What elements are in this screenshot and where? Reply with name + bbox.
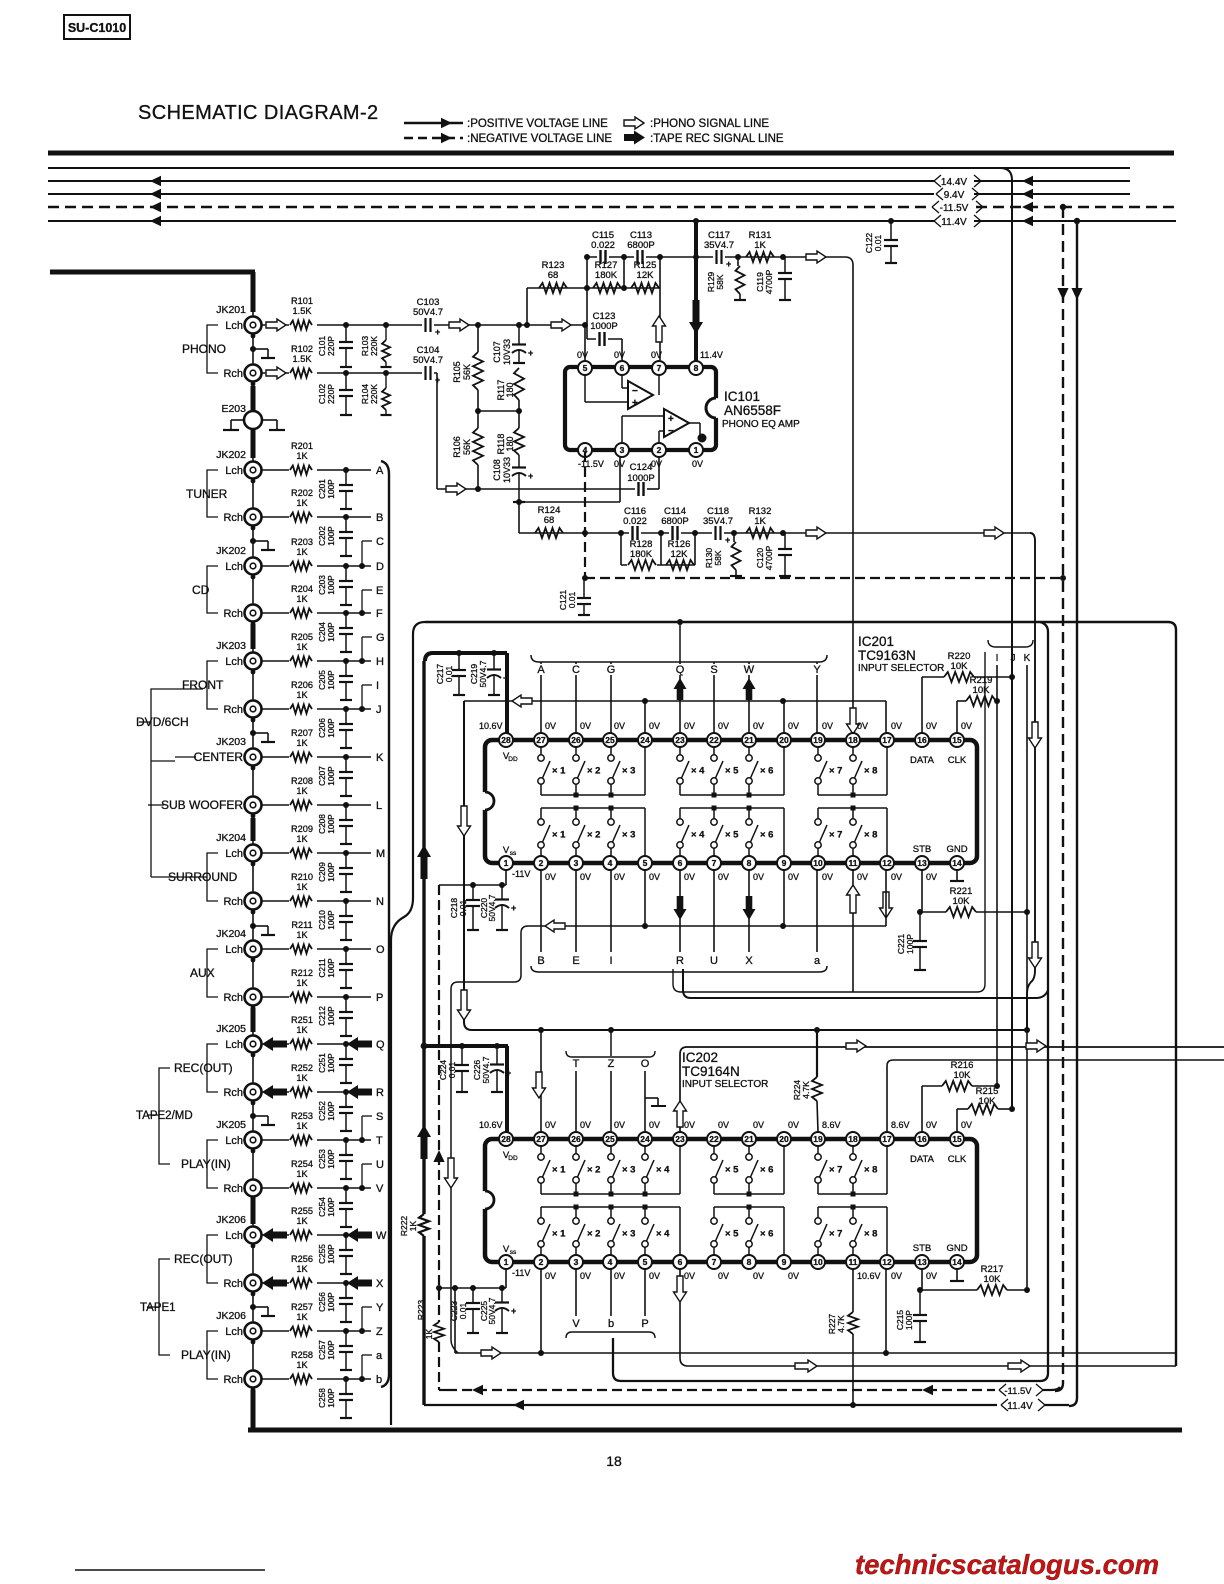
junction dot bridge on D line xyxy=(359,563,365,569)
svg-text:R211: R211 xyxy=(291,920,312,930)
capacitor C226 50V4.7 xyxy=(472,1046,511,1092)
arrow tape rec into jack y1235 xyxy=(262,1228,287,1242)
wire phono Lch out to pin18 xyxy=(826,257,853,733)
svg-text:18: 18 xyxy=(848,735,858,745)
svg-text:0V: 0V xyxy=(545,1271,556,1281)
svg-text:12: 12 xyxy=(882,1257,892,1267)
resistor R222 1K xyxy=(399,1214,429,1236)
svg-text:0V: 0V xyxy=(684,872,695,882)
svg-text:E: E xyxy=(376,585,383,597)
wire y1047 output row xyxy=(680,1047,1224,1054)
wire row R251 y1044 xyxy=(261,1043,371,1045)
resistor R252 1K xyxy=(289,1063,317,1099)
svg-text:0V: 0V xyxy=(788,872,799,882)
resistor R129 58K xyxy=(706,254,746,300)
pin 26 IC201 xyxy=(569,733,583,747)
ground chassis stub y733 xyxy=(250,730,275,742)
svg-text:TAPE2/MD: TAPE2/MD xyxy=(136,1110,193,1122)
pin 1 IC201 xyxy=(499,856,513,870)
wire vertical drop x1012 xyxy=(1000,168,1012,1109)
switch group row2-3 IC202 xyxy=(815,1205,887,1256)
svg-text:4700P: 4700P xyxy=(764,545,774,570)
svg-text:× 3: × 3 xyxy=(622,1229,635,1240)
svg-text:100P: 100P xyxy=(326,1292,336,1312)
pin 27 IC202 xyxy=(534,1132,548,1146)
svg-text:23: 23 xyxy=(675,735,685,745)
resistor R251 1K xyxy=(289,1015,317,1051)
svg-text:C108: C108 xyxy=(492,459,502,481)
svg-text:ss: ss xyxy=(510,1249,517,1256)
svg-text:0.01: 0.01 xyxy=(458,899,468,916)
svg-text:0V: 0V xyxy=(649,1271,660,1281)
wire row R212 y997 xyxy=(261,996,371,998)
svg-text:0V: 0V xyxy=(580,872,591,882)
svg-text:+: + xyxy=(725,535,730,545)
arrow down phono Rch route a xyxy=(1029,722,1042,748)
svg-text:18: 18 xyxy=(848,1134,858,1144)
wire row R102 y373 xyxy=(261,372,416,374)
resistor R206 1K xyxy=(289,680,317,716)
wire net I from pin xyxy=(610,870,612,952)
svg-text:1K: 1K xyxy=(296,738,308,748)
node letters bracket xyxy=(381,461,389,1387)
svg-text:R210: R210 xyxy=(291,872,313,882)
resistor R205 1K xyxy=(289,632,317,668)
wire jack column vertical xyxy=(252,310,254,1430)
svg-text:Y: Y xyxy=(813,664,821,676)
switch group row2-1 IC201 xyxy=(538,806,645,857)
svg-text:JK202: JK202 xyxy=(216,449,246,461)
svg-text:100P: 100P xyxy=(326,1388,336,1408)
svg-text:0V: 0V xyxy=(649,721,660,731)
svg-text:3: 3 xyxy=(574,858,579,868)
pin 5 IC201 xyxy=(638,856,652,870)
capacitor C206 100P xyxy=(317,706,353,748)
wire row R258 y1379 xyxy=(261,1378,371,1380)
resistor R126 12K xyxy=(666,539,694,570)
svg-text:0V: 0V xyxy=(961,1120,972,1130)
node bottom 11.4V label xyxy=(1001,1399,1045,1412)
svg-text:S: S xyxy=(376,1111,383,1123)
resistor R101 1.5K xyxy=(289,296,317,332)
capacitor C102 220P xyxy=(317,370,353,415)
node bottom letters bracket IC201 xyxy=(531,966,827,972)
svg-text:100P: 100P xyxy=(326,814,336,834)
ground chassis stub y1307 xyxy=(250,1304,275,1316)
svg-text:GND: GND xyxy=(946,844,967,855)
op-amp IC101 AN6558F body xyxy=(565,367,726,450)
svg-text:1000P: 1000P xyxy=(627,473,654,484)
svg-text:1K: 1K xyxy=(296,930,308,940)
capacitor C223 0.01 xyxy=(449,1285,480,1333)
svg-text:4.7K: 4.7K xyxy=(801,1081,811,1099)
resistor R217 10K xyxy=(977,1264,1007,1295)
svg-text:× 2: × 2 xyxy=(587,1229,600,1240)
pin 20 IC201 xyxy=(777,733,791,747)
svg-text:Q: Q xyxy=(676,664,685,676)
svg-text:R: R xyxy=(676,955,684,967)
wire Vss line IC201 xyxy=(439,870,506,885)
wire box outline right IC201 xyxy=(673,652,985,992)
svg-text:0V: 0V xyxy=(545,721,556,731)
svg-text:1K: 1K xyxy=(296,1121,308,1131)
arrow down pin12 xyxy=(880,892,893,918)
capacitor C122 0.01 xyxy=(864,218,898,263)
svg-text:AN6558F: AN6558F xyxy=(724,403,781,418)
svg-text:22: 22 xyxy=(709,735,719,745)
wire row R201 y470 xyxy=(261,469,371,471)
node AUX group xyxy=(190,949,218,997)
svg-text:8.6V: 8.6V xyxy=(891,1120,910,1130)
wire row R208 y805 xyxy=(261,804,371,806)
svg-text:× 5: × 5 xyxy=(725,1165,739,1176)
svg-text:TUNER: TUNER xyxy=(186,487,228,501)
capacitor C256 100P xyxy=(317,1280,353,1322)
svg-text:× 6: × 6 xyxy=(760,766,773,777)
jack Rch y373 xyxy=(223,365,261,387)
jack JK202 Lch y566 xyxy=(216,545,261,579)
svg-text:100P: 100P xyxy=(326,670,336,690)
svg-text:0.01: 0.01 xyxy=(447,1061,457,1078)
pin 13 IC201 xyxy=(915,856,929,870)
resistor R210 1K xyxy=(289,872,317,908)
node TAPE1 PLAY(IN) group xyxy=(181,1331,231,1379)
svg-text:Z: Z xyxy=(376,1326,383,1338)
jack Rch y1188 xyxy=(223,1180,261,1202)
pin 4 IC202 xyxy=(603,1255,617,1269)
node TAPE1 REC(OUT) group xyxy=(174,1235,233,1283)
svg-text:0V: 0V xyxy=(614,872,625,882)
capacitor C207 100P xyxy=(317,754,353,796)
svg-text:JK206: JK206 xyxy=(216,1310,246,1322)
svg-text:× 2: × 2 xyxy=(587,766,600,777)
switch group row2-1 IC202 xyxy=(538,1205,680,1256)
svg-text:CLK: CLK xyxy=(948,755,967,766)
svg-text:+: + xyxy=(528,348,533,358)
resistor R215 10K xyxy=(957,1086,1015,1132)
svg-text:0V: 0V xyxy=(651,350,662,360)
svg-text:× 7: × 7 xyxy=(829,830,842,841)
svg-text:+: + xyxy=(506,1068,511,1078)
svg-text:R208: R208 xyxy=(291,776,313,786)
svg-text:220P: 220P xyxy=(326,384,336,404)
svg-text:0.01: 0.01 xyxy=(567,591,577,608)
svg-text:× 4: × 4 xyxy=(656,1229,670,1240)
node TAPE2 REC(OUT) group xyxy=(174,1044,233,1092)
svg-text:1000P: 1000P xyxy=(590,321,617,332)
svg-text:9: 9 xyxy=(782,1257,787,1267)
jack JK204 Lch y949 xyxy=(216,928,261,962)
svg-text:INPUT SELECTOR: INPUT SELECTOR xyxy=(682,1079,768,1090)
svg-text:0V: 0V xyxy=(580,1271,591,1281)
svg-text:50V4.7: 50V4.7 xyxy=(487,1297,497,1324)
svg-text:1K: 1K xyxy=(754,516,766,527)
junction dot bridge on b line xyxy=(359,1376,365,1382)
svg-text:0V: 0V xyxy=(857,721,868,731)
wire pin6 out y1366 xyxy=(680,1312,1176,1366)
svg-text:100P: 100P xyxy=(326,526,336,546)
arrow left y926 xyxy=(545,920,565,932)
svg-text:I: I xyxy=(996,653,999,664)
svg-text:H: H xyxy=(376,656,384,668)
svg-text:100P: 100P xyxy=(326,622,336,642)
pin 7 IC202 xyxy=(707,1255,721,1269)
wire pin3 feedback y502 xyxy=(519,452,620,502)
capacitor C253 100P xyxy=(317,1137,353,1179)
svg-text:17: 17 xyxy=(882,735,892,745)
svg-text:4: 4 xyxy=(608,1257,613,1267)
svg-text:R209: R209 xyxy=(291,824,313,834)
pin 12 IC202 xyxy=(880,1255,894,1269)
svg-text:U: U xyxy=(376,1159,384,1171)
svg-text:20: 20 xyxy=(779,735,789,745)
svg-text:10.6V: 10.6V xyxy=(479,1120,503,1130)
jack Rch y613 xyxy=(223,605,261,627)
resistor R103 220K xyxy=(360,322,392,367)
svg-text:220P: 220P xyxy=(326,336,336,356)
svg-text:R256: R256 xyxy=(291,1254,313,1264)
model label SU-C1010 xyxy=(64,15,130,39)
resistor R130 58K xyxy=(704,530,742,576)
pin 7 IC101 xyxy=(652,361,666,375)
wire rail4 y565 xyxy=(621,533,695,565)
node nets I J K bracket xyxy=(988,640,1033,664)
arrow right y1366 a xyxy=(795,1360,817,1372)
arrow tape rec at letter X xyxy=(347,1276,372,1290)
pin 6 IC201 xyxy=(673,856,687,870)
wire bus 14.4V xyxy=(48,176,1130,187)
svg-text:C: C xyxy=(376,536,384,548)
svg-text:10K: 10K xyxy=(973,685,991,696)
capacitor C107 10V33 xyxy=(492,325,533,365)
pin 13 IC202 xyxy=(915,1255,929,1269)
svg-text:12K: 12K xyxy=(637,270,655,281)
pin 21 IC202 xyxy=(742,1132,756,1146)
svg-text:Rch: Rch xyxy=(223,1183,243,1195)
resistor R223 1K xyxy=(416,1300,444,1342)
svg-text:6800P: 6800P xyxy=(661,516,688,527)
svg-text:1.5K: 1.5K xyxy=(293,354,313,364)
svg-text:10K: 10K xyxy=(984,1274,1002,1285)
capacitor C113 6800P xyxy=(627,230,654,265)
switch group row1-3 IC201 xyxy=(815,747,887,798)
svg-text:× 7: × 7 xyxy=(829,1229,842,1240)
switch group row2-3 IC201 xyxy=(815,806,887,857)
junction dot bridge on F line xyxy=(359,610,365,616)
svg-text:1.5K: 1.5K xyxy=(293,306,313,316)
svg-text:1K: 1K xyxy=(296,690,308,700)
svg-text:−: − xyxy=(632,386,638,397)
svg-text:-11.5V: -11.5V xyxy=(578,459,604,469)
wire row R211 y949 xyxy=(261,948,371,950)
arrow left y701 xyxy=(512,695,532,707)
svg-text:100P: 100P xyxy=(326,575,336,595)
svg-text:0V: 0V xyxy=(614,459,625,469)
switch group row2-2 IC202 xyxy=(711,1205,784,1256)
svg-text:1K: 1K xyxy=(296,1169,308,1179)
wire thick supply x424 xyxy=(417,661,431,1405)
arrow tape rec at letter Q xyxy=(347,1037,372,1051)
svg-text:6: 6 xyxy=(620,363,625,373)
svg-text:5: 5 xyxy=(643,858,648,868)
svg-text:R105: R105 xyxy=(452,361,462,383)
wire row R210 y901 xyxy=(261,900,371,902)
resistor R219 10K xyxy=(957,675,1000,733)
svg-text:0V: 0V xyxy=(822,872,833,882)
svg-text:21: 21 xyxy=(744,735,754,745)
wire net R from pin6 xyxy=(674,870,687,952)
node DVD/6CH outer bracket xyxy=(136,689,203,877)
wire net C to pin xyxy=(575,662,577,733)
svg-text:0V: 0V xyxy=(614,350,625,360)
svg-text:G: G xyxy=(607,664,616,676)
wire bottom 11.4V return xyxy=(424,1400,1069,1411)
svg-text:K: K xyxy=(1024,653,1031,664)
svg-text:JK205: JK205 xyxy=(216,1119,246,1131)
svg-text:JK202: JK202 xyxy=(216,545,246,557)
wire net S to pin xyxy=(713,662,715,733)
svg-text:× 1: × 1 xyxy=(552,1165,566,1176)
svg-text:SCHEMATIC DIAGRAM-2: SCHEMATIC DIAGRAM-2 xyxy=(138,102,379,124)
svg-text:A: A xyxy=(376,465,384,477)
svg-text:3: 3 xyxy=(574,1257,579,1267)
svg-text:DD: DD xyxy=(508,756,518,763)
svg-text:1K: 1K xyxy=(296,1073,308,1083)
svg-text:21: 21 xyxy=(744,1134,754,1144)
wire bus -11.5V dashed xyxy=(48,202,1176,213)
svg-text:b: b xyxy=(376,1374,382,1386)
svg-text:IC202: IC202 xyxy=(682,1050,718,1065)
svg-text:0.022: 0.022 xyxy=(623,516,647,527)
svg-text:27: 27 xyxy=(536,735,546,745)
jack Rch y517 xyxy=(223,509,261,531)
svg-text:Rch: Rch xyxy=(223,1278,243,1290)
capacitor C103 50V4.7 xyxy=(413,297,443,337)
svg-text:Rch: Rch xyxy=(223,1087,243,1099)
node net Y (bridge) xyxy=(362,1302,384,1331)
wire net T to pin xyxy=(575,1071,577,1132)
svg-text::NEGATIVE VOLTAGE LINE: :NEGATIVE VOLTAGE LINE xyxy=(467,133,612,145)
node IC201 top pin voltages xyxy=(479,721,972,731)
wire net I vertical xyxy=(996,665,998,1086)
wire route y622 xyxy=(425,622,1176,1366)
svg-text:O: O xyxy=(641,1058,650,1070)
svg-text:10: 10 xyxy=(813,858,823,868)
svg-text:10.6V: 10.6V xyxy=(479,721,503,731)
svg-text:× 7: × 7 xyxy=(829,1165,842,1176)
svg-text:0V: 0V xyxy=(614,1271,625,1281)
svg-text:Rch: Rch xyxy=(223,1374,243,1386)
svg-text:14: 14 xyxy=(952,1257,962,1267)
pin 28 IC201 xyxy=(499,733,513,747)
node IC201 Vdd Vss xyxy=(503,751,968,857)
capacitor C252 100P xyxy=(317,1089,353,1131)
wire net V from pin xyxy=(575,1269,577,1316)
node TUNER group xyxy=(186,470,228,517)
svg-text:R101: R101 xyxy=(291,296,313,306)
svg-text:1K: 1K xyxy=(296,978,308,988)
wire row R204 y613 xyxy=(261,612,371,614)
svg-text:TC9164N: TC9164N xyxy=(682,1064,740,1079)
resistor R128 180K xyxy=(627,539,657,572)
svg-text:0V: 0V xyxy=(926,721,937,731)
resistor R208 1K xyxy=(289,776,317,812)
switch group row2-2 IC201 xyxy=(677,806,784,857)
resistor R253 1K xyxy=(289,1111,317,1147)
svg-text:1K: 1K xyxy=(408,1220,418,1231)
svg-text:V: V xyxy=(572,1318,580,1330)
svg-text:50V4.7: 50V4.7 xyxy=(478,660,488,687)
wire net a from pin xyxy=(816,870,818,952)
node IC202 bottom pin voltages xyxy=(512,1268,937,1281)
junction dot bridge on Z line xyxy=(359,1328,365,1334)
svg-text:S: S xyxy=(710,664,717,676)
pin 10 IC202 xyxy=(811,1255,825,1269)
svg-text:× 8: × 8 xyxy=(864,1229,877,1240)
svg-text:100P: 100P xyxy=(326,862,336,882)
svg-text:100P: 100P xyxy=(326,1149,336,1169)
svg-text:0V: 0V xyxy=(718,872,729,882)
pin 18 IC202 xyxy=(846,1132,860,1146)
svg-text:180: 180 xyxy=(505,436,515,451)
resistor R132 1K xyxy=(746,506,774,538)
arrow phono Rch y489 xyxy=(446,483,466,495)
svg-text:10.6V: 10.6V xyxy=(857,1271,881,1281)
svg-text:1: 1 xyxy=(694,445,699,455)
capacitor C104 50V4.7 xyxy=(413,345,443,385)
svg-text:3: 3 xyxy=(620,445,625,455)
capacitor C205 100P xyxy=(317,658,353,700)
pin 22 IC201 xyxy=(707,733,721,747)
wire thick feeder left xyxy=(50,270,255,275)
legend negative voltage line xyxy=(404,133,612,145)
svg-text:16: 16 xyxy=(917,1134,927,1144)
node TAPE2 PLAY(IN) group xyxy=(181,1140,231,1188)
svg-text:13: 13 xyxy=(917,1257,927,1267)
capacitor C224 0.01 xyxy=(438,1046,469,1092)
svg-text:50V4.7: 50V4.7 xyxy=(413,355,443,366)
node net S (bridge) xyxy=(362,1111,383,1140)
svg-text:220K: 220K xyxy=(369,384,379,404)
svg-text:100P: 100P xyxy=(326,1197,336,1217)
op-amp IC101 section A xyxy=(585,375,659,409)
svg-text:68: 68 xyxy=(548,270,559,281)
arrow right y1366 b xyxy=(1008,1360,1030,1372)
svg-text:100P: 100P xyxy=(326,766,336,786)
node FRONT group xyxy=(182,661,224,709)
svg-text:B: B xyxy=(376,512,383,524)
svg-text:56K: 56K xyxy=(462,364,472,380)
svg-text:11: 11 xyxy=(849,858,858,868)
svg-text:REC(OUT): REC(OUT) xyxy=(174,1061,233,1075)
svg-text:1K: 1K xyxy=(296,1025,308,1035)
svg-text:4: 4 xyxy=(608,858,613,868)
svg-text:0.022: 0.022 xyxy=(591,240,615,251)
svg-text:DATA: DATA xyxy=(910,755,935,766)
node net I (bridge) xyxy=(362,680,379,709)
svg-text:Lch: Lch xyxy=(225,1326,243,1338)
legend phono signal line xyxy=(624,117,769,130)
svg-text:6: 6 xyxy=(678,858,683,868)
pin 24 IC201 xyxy=(638,733,652,747)
svg-text:FRONT: FRONT xyxy=(182,678,224,692)
wire R105-R117 link xyxy=(478,410,519,412)
svg-text:+: + xyxy=(668,414,674,425)
svg-text:24: 24 xyxy=(640,1134,650,1144)
wire R224 drop xyxy=(814,1027,820,1077)
svg-text:JK204: JK204 xyxy=(216,928,246,940)
op-amp IC101 section B xyxy=(622,409,700,443)
